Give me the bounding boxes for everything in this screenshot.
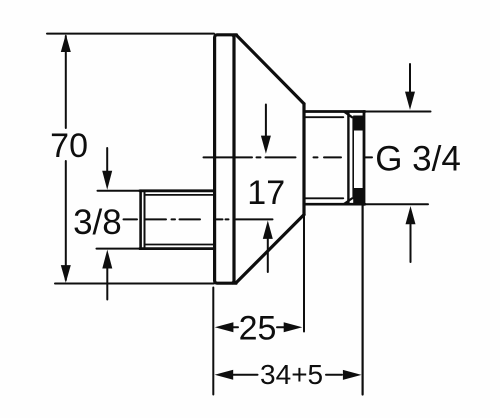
G3/4 end cap inner line: [352, 117, 354, 199]
dim 70 arrow down: [61, 265, 71, 283]
dim 3/8 arrow lower head: [102, 250, 112, 269]
dim G3/4 arrow bottom head: [406, 206, 416, 224]
dim 17 arrow upper head: [261, 136, 271, 154]
dim 70 line lower segment: [65, 161, 67, 280]
dim 3/8 arrow upper head: [102, 171, 112, 190]
dim 25 left extension: [212, 288, 214, 395]
dim 17 arrow lower shaft: [267, 239, 269, 272]
centerline G3/4 axis: [204, 156, 373, 158]
dim 70 arrow up: [61, 34, 71, 52]
dim 70 top extension line: [47, 33, 214, 35]
dim 34+5 arrow right: [343, 370, 362, 380]
3/8 stub chamfer line: [144, 192, 146, 248]
dim 34+5 line left segment: [232, 374, 258, 376]
dim G3/4 arrow top head: [405, 92, 415, 110]
dim 25 arrow right: [284, 322, 303, 332]
svg-text:34+5: 34+5: [260, 359, 323, 390]
svg-text:25: 25: [239, 310, 277, 348]
3/8 thread minor line bottom: [145, 244, 214, 246]
G3/4 stub bottom edge: [304, 203, 365, 206]
G3/4 end cap chamfer bottom: [344, 198, 352, 203]
svg-text:17: 17: [247, 174, 285, 212]
3/8 stub left end: [139, 191, 142, 248]
dim 25 arrow left: [215, 322, 234, 332]
dim 34+5 arrow left: [215, 370, 234, 380]
dim G3/4 bottom extension: [364, 203, 429, 205]
dim 70 line upper segment: [65, 36, 67, 128]
flange plate outline: [215, 35, 234, 283]
3/8 stub bottom edge: [140, 247, 215, 250]
3/8 stub top edge: [140, 189, 215, 192]
dim G3/4 top extension: [364, 111, 431, 113]
cone top slope: [237, 35, 305, 104]
svg-text:70: 70: [50, 127, 88, 165]
dim 3/8 lower extension: [97, 248, 141, 250]
G3/4 thread minor line bottom: [305, 197, 343, 199]
dim 34+5 line right segment: [326, 374, 342, 376]
cone bottom slope: [236, 215, 304, 283]
dim 17 arrow upper shaft: [265, 105, 267, 137]
dim 3/8 upper extension: [98, 190, 141, 192]
G3/4 end cap chamfer top: [344, 112, 352, 117]
dim G3/4 arrow top shaft: [409, 64, 411, 92]
G3/4 stub top edge: [304, 110, 365, 113]
G3/4 thread section black top: [353, 116, 363, 131]
cone right face: [302, 104, 305, 215]
flange top edge to cone corner: [233, 33, 237, 36]
dim G3/4 arrow bottom shaft: [410, 225, 412, 263]
dim 3/8 arrow upper shaft: [106, 148, 108, 173]
dim 17 arrow lower head: [263, 221, 273, 239]
dim 3/8 arrow lower shaft: [106, 268, 108, 300]
dim 34+5 right extension: [362, 206, 364, 395]
dim 25 line left segment: [232, 326, 238, 328]
flange bottom edge to cone corner: [233, 282, 236, 285]
svg-text:G 3/4: G 3/4: [375, 140, 461, 179]
G3/4 end cap groove left edge: [347, 113, 349, 204]
G3/4 end cap right edge: [363, 112, 366, 205]
G3/4 thread minor line top: [305, 116, 343, 118]
dim 25 right extension: [303, 215, 305, 332]
dim 70 bottom extension line: [55, 283, 214, 285]
svg-text:3/8: 3/8: [73, 203, 122, 242]
3/8 thread minor line top: [145, 194, 214, 196]
G3/4 thread section black bottom: [353, 188, 363, 204]
dim 25 line right segment: [277, 326, 284, 328]
centerline 3/8 axis: [124, 218, 273, 220]
